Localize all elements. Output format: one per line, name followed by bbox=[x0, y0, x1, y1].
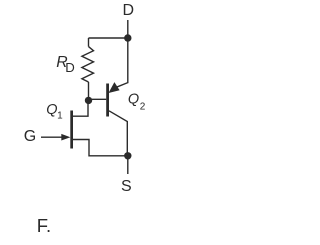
svg-text:G: G bbox=[24, 128, 36, 145]
resistor RD label bbox=[56, 54, 75, 75]
transistor Q2 label bbox=[128, 91, 146, 112]
transistor Q2 base bar bbox=[106, 84, 109, 117]
svg-text:F.: F. bbox=[37, 215, 51, 236]
svg-text:Q: Q bbox=[46, 102, 57, 118]
terminal G label bbox=[24, 128, 36, 145]
node D label bbox=[123, 2, 135, 19]
transistor Q2 emitter arrowhead bbox=[109, 82, 120, 93]
wire resistor bottom lead bbox=[88, 82, 90, 100]
transistor Q1 label bbox=[46, 102, 63, 121]
svg-text:D: D bbox=[123, 2, 135, 19]
wire Q2 base bbox=[89, 98, 107, 100]
resistor RD bbox=[82, 47, 94, 82]
svg-text:D: D bbox=[65, 60, 75, 75]
wire Q1 drain bbox=[73, 100, 88, 116]
svg-text:1: 1 bbox=[57, 110, 63, 121]
transistor Q2 collector bbox=[109, 111, 127, 156]
wire gate from G bbox=[41, 136, 63, 138]
wire D lead bbox=[127, 20, 129, 38]
svg-text:S: S bbox=[121, 178, 132, 195]
wire Q1 source bbox=[73, 140, 128, 156]
wire Q2 emitter from node bbox=[117, 38, 128, 87]
caption F. bbox=[37, 215, 51, 236]
node B junction dot (top) bbox=[124, 34, 131, 41]
node A junction dot bbox=[85, 97, 92, 104]
wire top horizontal bbox=[89, 37, 128, 39]
wire S lead bbox=[127, 156, 129, 174]
svg-text:2: 2 bbox=[140, 101, 146, 112]
transistor Q1 channel bar bbox=[70, 111, 73, 149]
svg-text:Q: Q bbox=[128, 91, 139, 107]
terminal S label bbox=[121, 178, 132, 195]
wire resistor top lead bbox=[88, 38, 90, 47]
node C junction dot (bottom) bbox=[124, 152, 131, 159]
transistor Q1 gate arrowhead bbox=[61, 134, 70, 141]
